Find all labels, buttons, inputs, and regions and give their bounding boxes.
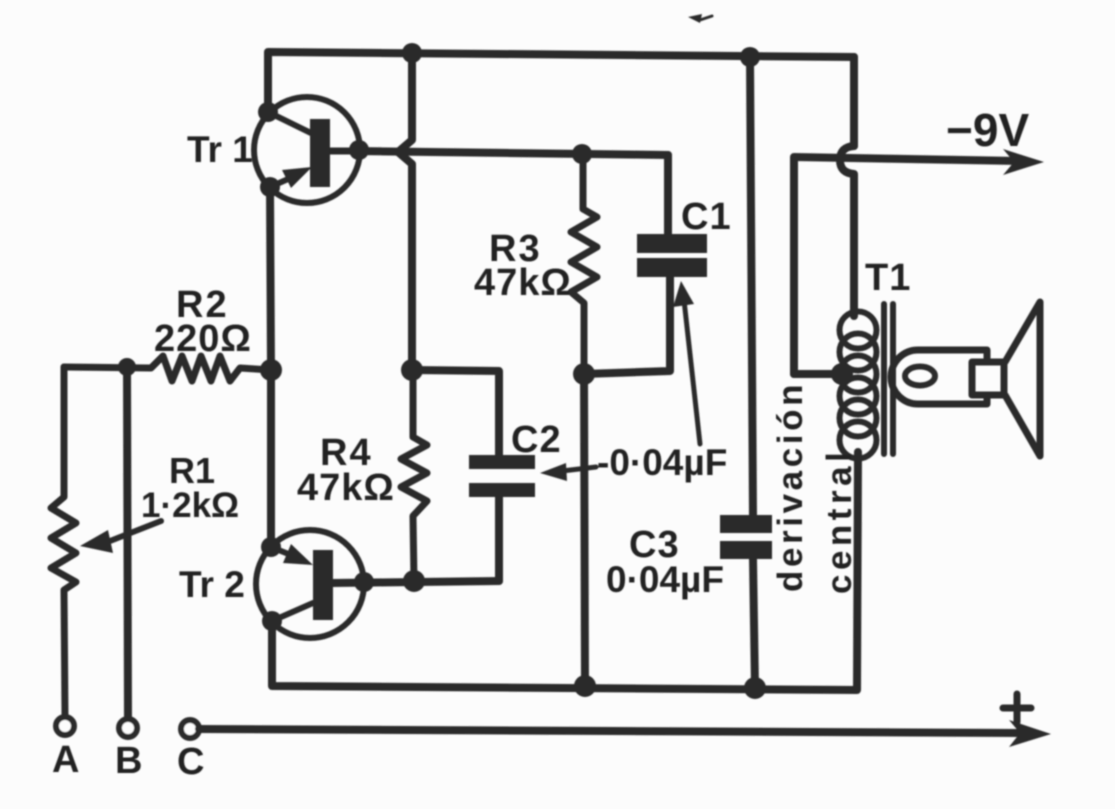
speaker cone: [1005, 302, 1040, 456]
arrowhead -9V: [1003, 149, 1044, 175]
arrow R1 label pointer: [110, 521, 161, 541]
transistor Tr1: [254, 97, 369, 203]
node R2 left / B: [118, 358, 136, 376]
svg-text:R1: R1: [169, 450, 215, 491]
node top-mid: [402, 43, 422, 63]
node bottom right: [744, 677, 766, 699]
transformer T1 primary coil: [840, 312, 877, 459]
wire center tap: [794, 370, 842, 378]
svg-text:central: central: [820, 448, 859, 594]
capacitor C1: [584, 234, 707, 374]
svg-text:C2: C2: [511, 419, 562, 461]
wire C1 top lead: [664, 155, 672, 236]
smudge mark top: [688, 14, 702, 23]
wire crossover hop at -9V line: [840, 146, 854, 316]
wire emitters vertical: [270, 187, 271, 547]
arrowhead + rail: [1009, 720, 1051, 747]
capacitor C3: [720, 57, 772, 688]
wire node to bottom rail: [584, 374, 585, 686]
node R4/C2 bottom: [403, 570, 425, 592]
node top-right: [740, 47, 760, 67]
node R3 bottom: [573, 363, 595, 385]
transformer T1 core: [884, 304, 893, 454]
wire right drop to transformer: [850, 57, 858, 146]
wire Tr2 base line: [333, 581, 499, 583]
wire node to C2 top: [412, 370, 499, 455]
svg-text:B: B: [115, 740, 142, 782]
wire cross vertical (top rail to R4/C2) with notch at Tr1 base: [398, 53, 412, 370]
svg-text:1·2kΩ: 1·2kΩ: [141, 486, 239, 525]
terminal B: [119, 719, 137, 737]
speaker driver box: [972, 362, 1004, 395]
svg-text:C: C: [177, 741, 204, 783]
svg-text:C1: C1: [681, 196, 732, 238]
wire Tr1 base to R3/C1: [352, 151, 668, 155]
arrow to C2: [562, 467, 596, 471]
node R3 top: [572, 144, 592, 164]
svg-text:T1: T1: [865, 257, 911, 299]
svg-text:derivación: derivación: [771, 381, 810, 592]
resistor R2: [64, 356, 271, 381]
svg-text:Tr 1: Tr 1: [187, 129, 253, 170]
node center tap: [831, 363, 853, 385]
wire B vertical: [127, 367, 128, 719]
capacitor C2: [469, 455, 535, 581]
svg-text:0·04µF: 0·04µF: [606, 559, 724, 600]
svg-text:−9V: −9V: [946, 104, 1029, 156]
terminal A: [56, 717, 74, 735]
label +: [1003, 694, 1031, 722]
svg-text:47kΩ: 47kΩ: [297, 467, 395, 509]
svg-text:47kΩ: 47kΩ: [474, 262, 572, 304]
transistor Tr2: [256, 530, 374, 638]
resistor R3: [571, 155, 597, 374]
node R2 right: [260, 359, 282, 381]
wire + rail: [199, 729, 1028, 733]
arrow to C1: [684, 300, 700, 444]
wire top rail: [268, 52, 854, 112]
svg-text:A: A: [52, 739, 79, 781]
svg-text:220Ω: 220Ω: [154, 318, 252, 360]
svg-text:Tr 2: Tr 2: [179, 564, 245, 605]
terminal C: [181, 720, 199, 738]
node bottom mid: [574, 675, 596, 697]
resistor R4: [401, 370, 427, 581]
wire Tr2 collector to bottom rail and up right side: [272, 452, 858, 690]
wire -9V line: [794, 157, 1022, 374]
node R4/C2 top: [401, 359, 423, 381]
resistor R1: [51, 367, 76, 717]
svg-text:-0·04µF: -0·04µF: [597, 442, 727, 483]
transformer secondary loop: [891, 350, 987, 404]
